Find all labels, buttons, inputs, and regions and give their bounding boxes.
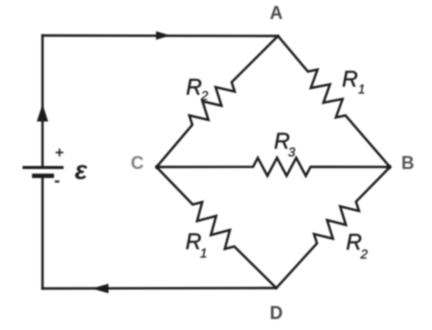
resistor R1 (branch A to B, with wires) [278, 36, 390, 167]
wire left vertical upper (battery + plate up to top-left corner) [41, 36, 43, 168]
wire top (battery + terminal to node A) [43, 34, 279, 37]
current arrow on top wire (pointing right) [156, 31, 171, 40]
svg-text:1: 1 [358, 82, 365, 97]
junction dot node C [155, 165, 160, 170]
svg-text:R: R [186, 75, 202, 100]
junction dot node B [387, 165, 392, 170]
svg-text:3: 3 [288, 145, 296, 160]
svg-text:D: D [270, 303, 283, 323]
battery minus sign [55, 180, 60, 182]
svg-text:A: A [270, 3, 283, 23]
resistor R2 (branch C to A, with wires) [157, 36, 279, 167]
resistor R1 (branch C to D, with wires) [157, 167, 277, 288]
wire bottom (node D to battery - terminal) [43, 287, 277, 290]
svg-text:B: B [401, 153, 414, 173]
svg-text:2: 2 [200, 88, 209, 103]
svg-text:C: C [131, 153, 144, 173]
battery positive plate (long) [23, 166, 64, 169]
resistor R2 (branch D to B, with wires) [276, 167, 390, 288]
wire left vertical lower (battery - plate down to bottom-left corner) [41, 176, 43, 289]
battery negative plate (short thick) [32, 174, 54, 178]
resistor R3 (bridge branch C to B, with wires) [157, 158, 391, 176]
svg-text:1: 1 [200, 246, 207, 261]
current arrow on left wire (pointing up) [37, 104, 48, 122]
svg-text:R: R [342, 67, 358, 92]
current arrow on bottom wire (pointing left) [92, 284, 109, 294]
svg-text:2: 2 [360, 247, 369, 262]
battery plus sign [56, 149, 64, 157]
svg-text:ε: ε [75, 155, 88, 185]
